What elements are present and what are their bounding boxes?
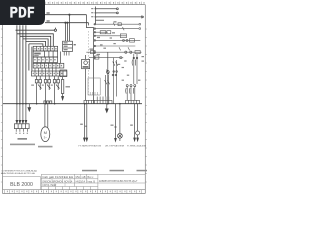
title table sub dividers [52, 174, 81, 186]
frame column digits top [48, 2, 145, 4]
svg-text:3~: 3~ [44, 135, 48, 139]
bus label L1 [47, 12, 50, 14]
title texts above table [82, 170, 147, 172]
wire step to control rail [87, 15, 94, 32]
ground arrow left [28, 104, 31, 112]
terminal strip on bus right [126, 100, 140, 103]
right feeder pair [134, 104, 140, 141]
ladder specks [100, 37, 140, 80]
label X1 line2 [10, 144, 35, 146]
frame row ticks left and right [1, 29, 147, 182]
bus line L1 [45, 14, 87, 16]
contact pair F2 [112, 58, 118, 104]
feeder wires to bottom terminal X1 [16, 104, 27, 124]
terminal strip on bus left [84, 97, 112, 104]
right feeder label [130, 125, 133, 126]
svg-text:Cab gab FLN/FEH EH: Cab gab FLN/FEH EH [42, 175, 73, 179]
breaker Q3 [53, 76, 59, 104]
rung 2 [94, 27, 141, 30]
row B label [34, 53, 41, 55]
motor wires [45, 104, 48, 128]
svg-text:7T.TAHO/HT/ATOB: 7T.TAHO/HT/ATOB [78, 144, 102, 147]
svg-text:xxB: xxB [82, 176, 86, 179]
svg-text:BHA-TEXHIK-ELHA-ELEKTPO-HA: BHA-TEXHIK-ELHA-ELEKTPO-HA [1, 172, 35, 175]
PDF badge [0, 0, 45, 25]
label near resistor [66, 86, 71, 88]
heater pair label [80, 124, 83, 125]
B1 right label [74, 44, 76, 45]
breaker Q2 [44, 76, 50, 104]
resistor column with arrow [61, 77, 63, 100]
wire nested routing arcs to terminal block [17, 25, 53, 104]
svg-text:MVx: MVx [76, 176, 82, 179]
relay box B1 marks [64, 42, 68, 50]
rung 3 [94, 31, 108, 34]
enclosure dashed boundary [87, 31, 89, 95]
sensor box T [82, 55, 90, 69]
breaker Q1 [35, 76, 41, 104]
terminal block row E [32, 71, 67, 76]
svg-text:BLB 2000: BLB 2000 [10, 182, 33, 188]
main bottom bus [3, 103, 142, 105]
rung 6 [94, 46, 136, 50]
svg-text:HV25/14: HV25/14 [76, 180, 86, 183]
wire long line with terminal circle [16, 28, 57, 32]
terminal block row D [33, 63, 64, 68]
enclosure box lower [88, 78, 100, 95]
cell number specks [33, 48, 64, 74]
rail side specks [91, 8, 144, 62]
svg-text:Insp. B: Insp. B [88, 180, 96, 183]
contactor 3ph [126, 85, 136, 101]
lamp branch [114, 104, 122, 142]
control ladder left rail [93, 31, 95, 103]
lamp label [111, 125, 114, 126]
terminal block X1 [14, 124, 29, 129]
heater pair wires [84, 104, 88, 141]
svg-text:OMSON, BROMOV, NOV-14: OMSON, BROMOV, NOV-14 [42, 179, 72, 183]
bus label L2 [47, 20, 50, 22]
ground arrow middle [105, 104, 108, 113]
riser contact circle [106, 70, 109, 75]
rung 8 [89, 56, 122, 59]
wire box B1 to row E [60, 52, 62, 64]
svg-text:2E.7XPTA/OEM: 2E.7XPTA/OEM [105, 144, 124, 147]
svg-text:AOBOBY-BYXOBY-M-BO-ПOCTP-ЦЧ+T: AOBOBY-BYXOBY-M-BO-ПOCTP-ЦЧ+T [99, 180, 138, 183]
control rail top [96, 7, 144, 25]
terminal block row B [33, 51, 57, 57]
B1 bottom stubs [64, 52, 69, 56]
svg-text:9.7EB.4044/B: 9.7EB.4044/B [127, 145, 147, 147]
svg-text:Bxx x: Bxx x [88, 176, 95, 179]
rung 7 [86, 51, 141, 54]
rail ticks [94, 9, 96, 17]
terminal block row C [33, 57, 57, 63]
mid contact risers [105, 75, 110, 97]
bus line L2 [45, 22, 89, 24]
rung 1 [94, 23, 141, 26]
wire K1 down [85, 69, 87, 101]
rung labels [90, 21, 117, 55]
wire tap T1 [65, 14, 70, 41]
frame bottom ticks [4, 190, 141, 194]
terminal X1 stubs [16, 129, 27, 132]
rail junction circles [94, 23, 96, 58]
PDF badge letters [10, 7, 34, 18]
terminal X1 numbers [16, 133, 28, 134]
rung 5 [94, 39, 141, 42]
bus junction dots [16, 103, 121, 105]
wire riser mid [107, 52, 109, 103]
title block table [41, 174, 145, 189]
motor feed ticks [44, 101, 52, 104]
terminal block row A [33, 46, 57, 51]
motor M1 [41, 127, 50, 142]
svg-text:M: M [44, 130, 47, 135]
svg-text:CATOL YEAR: CATOL YEAR [42, 183, 56, 187]
breaker labels [31, 85, 53, 86]
frame column ticks top [46, 2, 142, 5]
rung 3 second box [107, 31, 111, 34]
enclosure box ticks [90, 92, 97, 95]
rung 4 [94, 34, 127, 38]
label X1 line1 [18, 138, 28, 140]
row E right appendix [60, 70, 67, 77]
BLB 2000 box [3, 177, 41, 190]
motor label [38, 146, 53, 148]
contact pair F3 [132, 54, 138, 84]
relay box B1 [63, 41, 73, 51]
row D to E ticks [35, 68, 56, 71]
drawing frame top border [3, 5, 146, 194]
bottom digit specks [7, 191, 140, 193]
svg-text:C.OTBEYAHMNOPTHIYECKOY-CXEMA-H: C.OTBEYAHMNOPTHIYECKOY-CXEMA-HA-3AД [1, 169, 37, 172]
